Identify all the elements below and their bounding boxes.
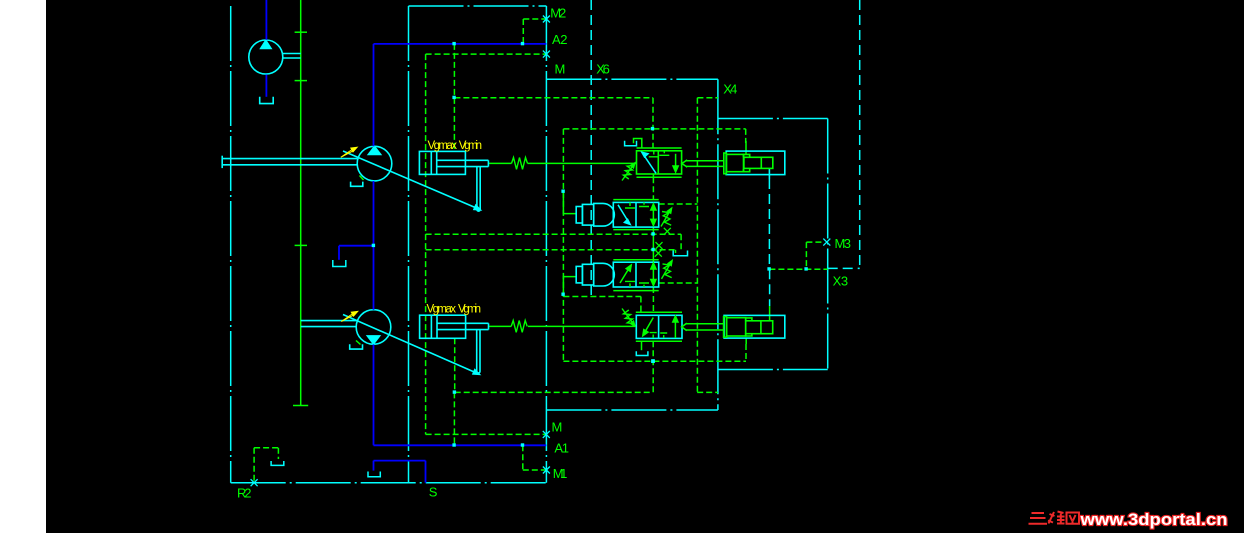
svg-text:www.3dportal.cn: www.3dportal.cn: [1079, 510, 1227, 529]
svg-text:M2: M2: [550, 6, 566, 21]
svg-text:A2: A2: [552, 32, 568, 47]
svg-text:X6: X6: [596, 61, 610, 76]
svg-text:M1: M1: [553, 466, 568, 481]
svg-text:S: S: [429, 485, 438, 500]
svg-text:M: M: [552, 419, 563, 434]
svg-text:M3: M3: [835, 236, 852, 251]
svg-text:Vgmax: Vgmax: [428, 140, 458, 152]
svg-text:X4: X4: [723, 82, 737, 97]
svg-text:M: M: [555, 61, 566, 76]
svg-text:Vgmin: Vgmin: [458, 303, 481, 315]
svg-text:R2: R2: [237, 486, 252, 501]
svg-text:A1: A1: [554, 441, 569, 456]
svg-text:Vgmin: Vgmin: [459, 140, 482, 152]
svg-text:Vgmax: Vgmax: [427, 303, 457, 315]
svg-text:X3: X3: [833, 274, 849, 289]
